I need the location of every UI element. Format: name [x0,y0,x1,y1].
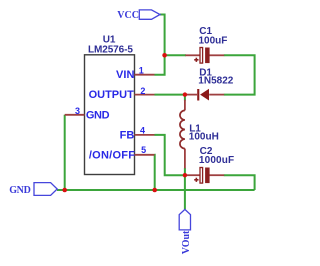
svg-text:VOut: VOut [181,230,192,254]
svg-text:3: 3 [75,106,80,116]
svg-text:1: 1 [139,65,144,75]
svg-text:100uF: 100uF [199,36,228,47]
svg-text:/ON/OFF: /ON/OFF [89,150,135,162]
svg-text:VIN: VIN [116,69,134,81]
svg-text:1N5822: 1N5822 [198,76,233,87]
svg-text:1000uF: 1000uF [199,155,234,166]
svg-text:VCC: VCC [117,10,139,21]
svg-text:OUTPUT: OUTPUT [89,89,135,101]
svg-text:4: 4 [140,126,145,136]
svg-text:GND: GND [9,185,30,196]
svg-text:5: 5 [141,145,146,155]
svg-text:GND: GND [86,109,110,121]
svg-text:100uH: 100uH [189,132,219,143]
svg-text:2: 2 [140,86,145,96]
svg-text:FB: FB [120,129,135,141]
svg-text:LM2576-5: LM2576-5 [88,44,133,55]
